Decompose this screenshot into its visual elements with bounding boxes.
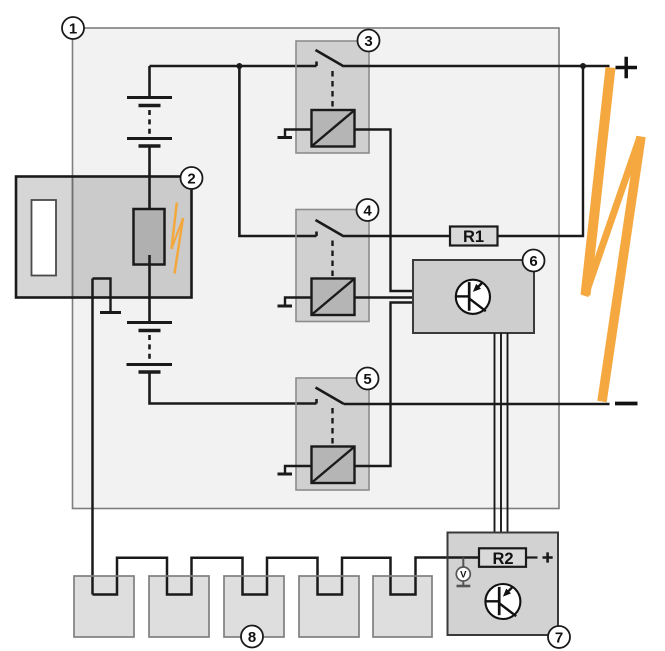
- battery B1 short plate 1: [139, 104, 161, 107]
- relay K3 switch blade: [316, 388, 345, 405]
- battery B1 dashed cell link: [148, 110, 151, 135]
- wire: box 2 chassis down to cell chain: [91, 279, 94, 595]
- relay K2 actuator dashed link: [331, 241, 333, 279]
- svg-text:R2: R2: [492, 550, 513, 568]
- relay K2 coil: [312, 279, 355, 316]
- wire: component to battery B2: [148, 255, 151, 323]
- wire: relay K2 coil to ground: [285, 298, 312, 306]
- transistor U2 base lead: [486, 600, 499, 602]
- transistor U1 base lead: [456, 295, 469, 297]
- transistor U2 circle: [485, 584, 520, 619]
- control unit enclosure box 1: [73, 28, 560, 509]
- chassis tab wire in box 2: [93, 279, 111, 313]
- wire: relay K3 coil to ground: [285, 466, 312, 473]
- circled label 2: [181, 167, 203, 189]
- wire: module 6 to module 7 line 3: [507, 333, 509, 533]
- relay K1 actuator dashed link: [331, 71, 333, 109]
- svg-text:V: V: [460, 570, 467, 581]
- component (igniter element) in box 2: [134, 209, 165, 265]
- wire: relay K3 coil up to module 6: [355, 303, 414, 467]
- display slot in box 2: [32, 200, 57, 276]
- wire: battery B1 to component in box 2: [148, 146, 151, 219]
- relay K2 left contact tick: [315, 232, 318, 237]
- minus terminal: [615, 402, 638, 406]
- svg-text:4: 4: [363, 202, 372, 219]
- high-voltage bolt stroke 1: [586, 68, 611, 296]
- relay K3 box 5: [296, 378, 369, 490]
- cell square 8c: [224, 576, 284, 637]
- ground bar at relay K3: [278, 473, 293, 476]
- high-voltage bolt stroke 3: [602, 137, 641, 402]
- transistor U1 base bar: [468, 282, 471, 311]
- relay K3 coil diagonal: [313, 448, 354, 483]
- battery B1 long plate 1: [127, 96, 172, 99]
- battery B2 dashed cell link: [148, 335, 151, 360]
- transistor U1 circle: [456, 280, 490, 314]
- circled label 1: [62, 17, 84, 39]
- transistor U1 emitter lead: [469, 298, 486, 311]
- wire: drop from top rail to relay K2: [239, 66, 316, 236]
- svg-text:2: 2: [187, 170, 195, 187]
- relay K2 coil diagonal: [313, 280, 354, 315]
- wire: battery B2 to bottom rail: [150, 372, 317, 404]
- box 1 left border seen through box 2: [72, 178, 74, 296]
- svg-text:5: 5: [363, 371, 371, 388]
- svg-text:6: 6: [529, 253, 537, 270]
- svg-text:3: 3: [364, 33, 372, 50]
- small spark bolt stroke 2: [172, 218, 184, 249]
- voltmeter V circle: [456, 567, 470, 581]
- cell square 8e: [373, 576, 432, 637]
- battery B2 short plate 1: [139, 329, 161, 332]
- voltmeter ground bar: [457, 585, 471, 588]
- plus terminal: [616, 57, 638, 79]
- voltmeter V stem: [462, 558, 464, 568]
- voltmeter ground stem: [462, 581, 464, 586]
- wire: bottom rail to minus: [344, 403, 610, 406]
- ground bar at relay K2: [278, 305, 293, 308]
- transistor U1 collector lead with arrow: [477, 283, 482, 288]
- cell square 8b: [149, 576, 209, 637]
- wire: relay K1 coil to ground: [285, 130, 312, 137]
- device box 2: [16, 177, 192, 298]
- relay K1 box 3: [296, 41, 369, 153]
- battery B2 long plate 2: [127, 363, 173, 366]
- wire: relay K2 coil to module 6: [355, 296, 414, 298]
- driver module box 6: [413, 260, 534, 333]
- transistor U2 base bar: [498, 587, 501, 615]
- circled label 5: [357, 368, 379, 390]
- transistor U2 collector lead with arrow: [507, 587, 512, 592]
- ground bar at relay K1: [278, 136, 293, 139]
- battery B2 long plate 1: [127, 321, 172, 324]
- circled label 6: [523, 250, 545, 272]
- small spark bolt stroke 1: [172, 203, 177, 250]
- wire: relay K2 to resistor R1: [344, 235, 450, 238]
- wire: top rail right segment to plus: [344, 65, 610, 68]
- wire: module 6 to module 7 line 1: [494, 333, 496, 533]
- relay K1 coil diagonal: [313, 111, 354, 146]
- plus pin mark in box 7: [543, 552, 553, 562]
- svg-text:R1: R1: [463, 228, 484, 246]
- relay K1 switch blade: [316, 50, 345, 67]
- relay K2 switch blade: [316, 220, 345, 237]
- relay K3 actuator dashed link: [331, 408, 333, 446]
- junction node at plus feed: [580, 63, 586, 69]
- relay K1 left contact tick: [315, 62, 318, 67]
- circled label 8: [241, 626, 263, 648]
- wire: relay K1 coil to module 6: [355, 130, 414, 292]
- wire: plus feed down to R1: [498, 66, 584, 236]
- battery B1 long plate 2: [127, 137, 172, 140]
- svg-text:7: 7: [555, 629, 563, 646]
- relay K3 coil: [312, 447, 355, 484]
- svg-text:8: 8: [248, 629, 256, 646]
- transistor U2 emitter lead: [499, 603, 516, 616]
- relay K1 coil: [312, 110, 355, 147]
- chassis ground bar under box 2: [100, 311, 121, 314]
- svg-text:1: 1: [69, 20, 77, 37]
- wire: R2 to plus pin: [526, 556, 538, 558]
- relay K2 box 4: [296, 210, 369, 322]
- battery B2 short plate 2: [139, 370, 161, 373]
- cell square 8d: [299, 576, 359, 637]
- wire: cell chain through squelch cells to R2: [93, 558, 481, 595]
- small spark bolt stroke 3: [175, 218, 184, 274]
- battery stack upper (wire riser to top rail): [148, 66, 151, 98]
- circled label 4: [357, 199, 379, 221]
- wire: top rail left segment: [150, 65, 317, 68]
- junction node at battery top rail: [236, 63, 242, 69]
- resistor R2: [479, 548, 526, 568]
- resistor R1: [450, 227, 498, 247]
- battery B1 short plate 2: [139, 144, 161, 147]
- cell square 8a: [74, 576, 134, 637]
- monitor module box 7: [448, 533, 559, 636]
- relay K3 left contact tick: [315, 399, 318, 404]
- circled label 7: [548, 626, 570, 648]
- high-voltage bolt stroke 2: [585, 137, 640, 296]
- circled label 3: [358, 30, 380, 52]
- wire: module 6 to module 7 line 2: [500, 333, 502, 533]
